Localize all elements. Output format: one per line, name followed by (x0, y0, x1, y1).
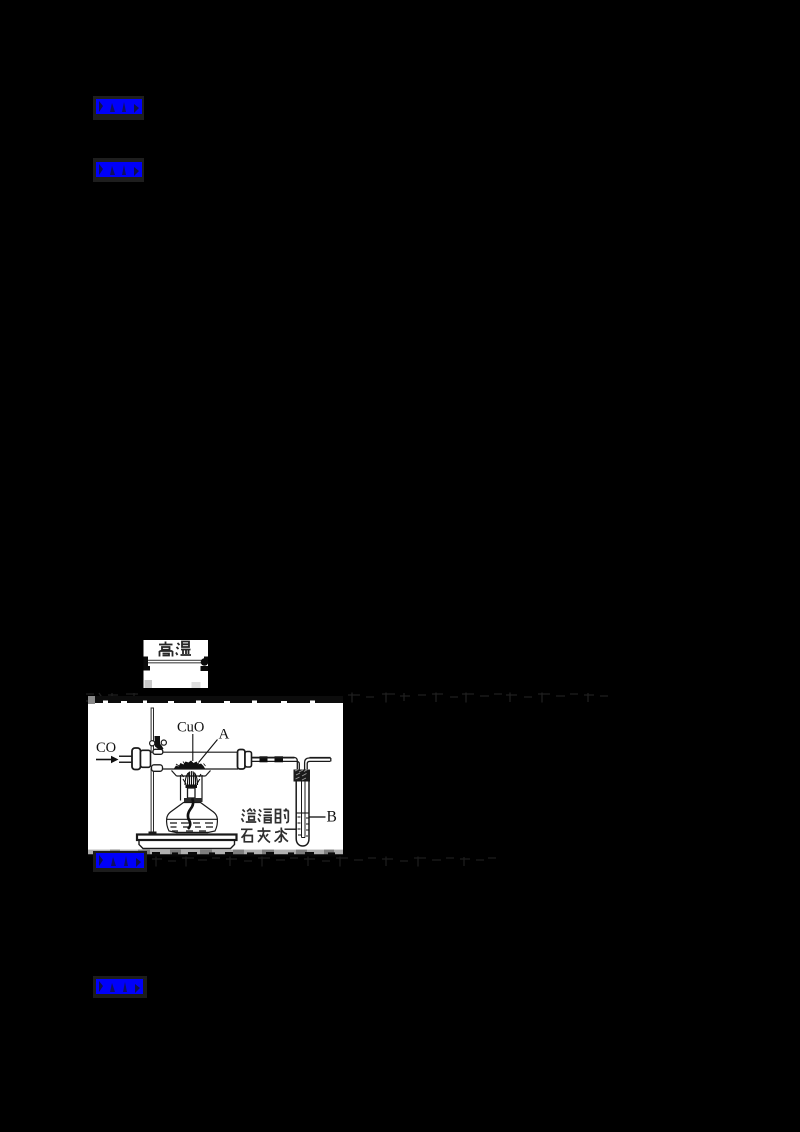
澄清的 label (242, 809, 289, 823)
right black blob (cropped equation char) (201, 657, 209, 672)
alcohol lamp body (167, 803, 218, 833)
left rubber stopper (132, 748, 151, 770)
tag halo 4 (93, 976, 147, 998)
glass tube body (white fill hides rod) (151, 753, 239, 769)
equation fragment image (高温 over arrow) (144, 640, 209, 688)
B pointer line (310, 816, 326, 818)
svg-text:CO: CO (96, 740, 116, 756)
tag halo 1 (93, 96, 144, 120)
bottom-right gray patch (192, 682, 201, 688)
wick (dark curve into lamp) (188, 798, 193, 829)
石灰水 label (241, 828, 288, 843)
scanned apparatus diagram box (88, 696, 343, 857)
exhaust arm rising from stopper (305, 758, 331, 770)
rubber connector 2 (275, 756, 284, 762)
pointer from 石灰水 to tube (285, 828, 297, 830)
arrow shaft double line (148, 660, 209, 663)
wick cap (186, 785, 198, 789)
rod foot (149, 832, 157, 837)
iron stand base (137, 835, 237, 849)
lamp base line (176, 832, 208, 834)
lamp collar (184, 798, 203, 802)
tag halo 2 (93, 158, 144, 182)
blue tag 3 (【解答】) (96, 853, 144, 868)
blue tag 1 (【分析】) (96, 99, 142, 114)
svg-text:A: A (219, 727, 230, 743)
inner delivery tube (302, 782, 306, 838)
clamp on rod (above tube) (150, 736, 167, 751)
cropped text band at top of scan (88, 696, 343, 703)
bend of delivery tube down into stopper (294, 757, 299, 770)
faint text row above diagram (86, 693, 608, 703)
温 glyph (176, 642, 191, 656)
faint answer text row (152, 857, 496, 867)
高 glyph (159, 642, 173, 657)
limewater level (296, 812, 309, 814)
rubber connector 1 (260, 756, 268, 762)
blue tag 4 (【点评】) (96, 979, 143, 994)
burner flame holder (172, 771, 211, 801)
tag halo 3 (93, 851, 147, 872)
flame strokes (182, 771, 202, 785)
delivery tube (double line) (251, 757, 297, 761)
CuO pointer line (192, 734, 194, 761)
clamp collar above tube (153, 749, 163, 754)
inlet double pipe (119, 756, 133, 762)
right rubber stopper (238, 750, 252, 770)
CuO powder pile (174, 761, 205, 769)
cropped text band at bottom of scan (88, 850, 343, 855)
iron stand rod (151, 708, 154, 835)
svg-text:B: B (327, 809, 337, 826)
A pointer line (199, 740, 218, 763)
test tube B (296, 782, 309, 847)
blue tag 2 (【解答】) (96, 162, 142, 177)
left black blob (cropped equation char) (144, 657, 151, 671)
svg-text:CuO: CuO (177, 720, 204, 736)
test tube stopper (hatched) (294, 770, 311, 782)
wick tube (188, 788, 196, 798)
CO arrow (96, 759, 111, 761)
alcohol liquid level (167, 818, 219, 820)
clamp lower jaw (below tube) (152, 765, 163, 772)
bottom-left gray patch (145, 680, 153, 688)
